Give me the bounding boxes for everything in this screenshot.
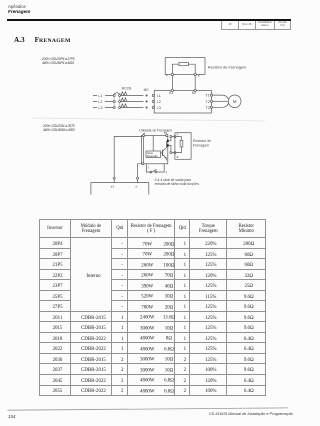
svg-text:L2: L2 <box>98 100 102 104</box>
svg-text:4: 4 <box>166 171 168 175</box>
svg-text:T1: T1 <box>205 94 209 98</box>
svg-text:3: 3 <box>148 165 150 169</box>
svg-text:M: M <box>233 99 237 104</box>
svg-text:B: B <box>198 73 200 77</box>
svg-text:P0: P0 <box>164 131 168 135</box>
svg-text:⊖: ⊖ <box>135 186 138 189</box>
svg-text:L1: L1 <box>98 94 102 98</box>
svg-text:MCCB: MCCB <box>122 86 133 90</box>
svg-text:⊕1: ⊕1 <box>111 185 115 189</box>
svg-text:Frenagem: Frenagem <box>193 143 209 147</box>
svg-text:L1: L1 <box>157 94 161 98</box>
svg-text:⊕: ⊕ <box>143 132 146 135</box>
svg-text:P: P <box>166 73 168 77</box>
svg-text:MC: MC <box>144 88 150 92</box>
svg-text:L3: L3 <box>98 106 102 110</box>
svg-text:Resistor de: Resistor de <box>193 139 211 143</box>
svg-text:P: P <box>177 133 179 137</box>
svg-text:L2: L2 <box>157 100 161 104</box>
svg-text:L3: L3 <box>157 106 161 110</box>
svg-text:Resistor de Frenagem: Resistor de Frenagem <box>208 64 247 69</box>
svg-text:T3: T3 <box>205 106 209 110</box>
svg-text:B: B <box>177 155 179 159</box>
svg-text:entrada de falha multi-funções: entrada de falha multi-funções <box>155 182 200 186</box>
svg-text:B1: B1 <box>169 91 173 95</box>
svg-text:Detecção: Detecção <box>147 155 158 158</box>
svg-text:B2: B2 <box>192 91 196 95</box>
svg-text:T2: T2 <box>205 100 209 104</box>
